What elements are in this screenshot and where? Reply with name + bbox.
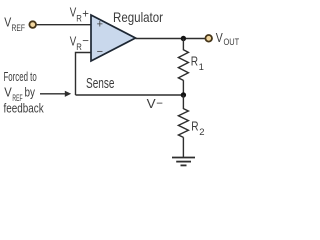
resistor R1 [178,50,188,81]
label R1 [191,53,204,73]
wire output [136,38,206,40]
svg-text:feedback: feedback [4,102,45,116]
label V- [147,96,164,111]
node output junction [181,36,186,41]
svg-text:2: 2 [199,127,204,138]
node V- junction [181,92,186,97]
wire R1 top [182,39,184,51]
terminal VOUT [205,35,212,42]
op-amp U1 regulator [91,15,136,61]
svg-text:Regulator: Regulator [113,9,163,25]
svg-text:R: R [191,53,198,68]
svg-text:R: R [76,42,82,53]
annotation forced to vref by feedback [4,70,45,115]
svg-text:+: + [82,9,89,21]
label VOUT [216,30,240,48]
ground [172,158,195,166]
svg-text:−: − [156,98,163,110]
svg-text:−: − [97,46,103,58]
svg-text:by: by [25,86,36,100]
wire R2 to ground [182,137,184,157]
svg-text:V: V [4,15,11,30]
svg-text:1: 1 [199,62,204,73]
svg-text:Forced to: Forced to [4,70,37,84]
label VREF [4,15,25,35]
svg-text:REF: REF [12,23,26,34]
svg-text:V: V [4,86,12,100]
label VR+ [70,5,90,25]
label VR- [70,34,90,54]
wire sense horizontal [76,94,184,96]
wire - input feedback vertical [76,53,92,96]
arrow annotation pointer [40,91,71,97]
terminal VREF [29,21,36,28]
label R2 [191,119,204,139]
wire R1 bottom [182,80,184,95]
svg-text:−: − [82,36,89,48]
svg-text:R: R [191,119,198,134]
svg-text:+: + [97,18,103,30]
svg-text:V: V [147,96,156,111]
wire R2 top [182,95,184,109]
svg-text:OUT: OUT [224,37,240,48]
svg-text:Sense: Sense [86,76,115,92]
svg-text:R: R [76,14,82,25]
svg-text:V: V [216,30,223,45]
wire VREF to + input [37,24,91,26]
resistor R2 [178,109,188,138]
